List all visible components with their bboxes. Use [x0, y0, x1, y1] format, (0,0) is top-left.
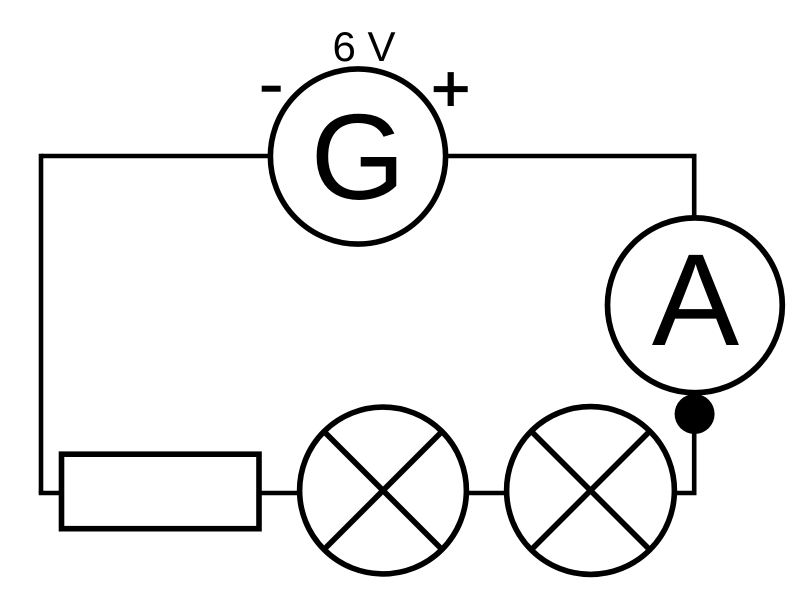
junction node dot [675, 394, 715, 434]
resistor R1 rectangle [62, 454, 260, 529]
svg-text:6 V: 6 V [332, 23, 395, 70]
ammeter A1 circle [608, 218, 783, 393]
wire lamp L1 to lamp L2 [464, 491, 510, 496]
lamp L1 circle [300, 407, 467, 574]
wire lamp L2 to right vertical up to junction [676, 408, 694, 493]
wire left vertical segment [39, 154, 44, 493]
svg-text:A: A [652, 226, 740, 373]
plus terminal mark [434, 72, 468, 106]
lamp L2 cross line SW-NE [532, 432, 650, 550]
wire top-right segment with corner down to ammeter [444, 156, 694, 218]
lamp L2 cross line NW-SE [532, 432, 650, 550]
svg-text:G: G [311, 89, 406, 225]
wire stub into resistor left terminal [39, 491, 64, 496]
wire resistor to lamp L1 [258, 491, 300, 496]
minus terminal mark [262, 86, 281, 92]
generator G1 circle [270, 69, 445, 244]
wire top-left segment (generator minus to left corner) [41, 154, 272, 159]
lamp L2 circle [507, 407, 675, 575]
lamp L1 cross line NW-SE [324, 432, 442, 550]
lamp L1 cross line SW-NE [324, 432, 442, 550]
